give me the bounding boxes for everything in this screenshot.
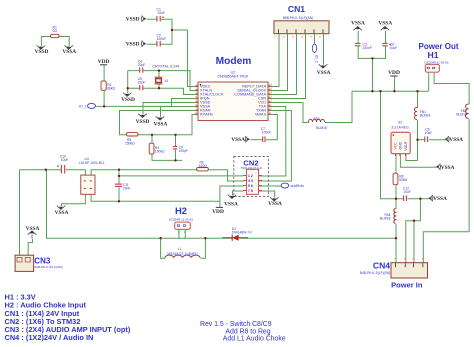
svg-text:BLM18: BLM18 xyxy=(316,126,327,130)
svg-text:VDD: VDD xyxy=(388,70,400,76)
wire R5 right to RXAFB pin xyxy=(139,115,199,135)
capacitor C5 xyxy=(138,77,146,90)
svg-text:Rev 1.5 - Switch C8/C9: Rev 1.5 - Switch C8/C9 xyxy=(200,321,272,328)
svg-text:100nF: 100nF xyxy=(157,37,167,41)
wire crystal top stub xyxy=(158,71,160,78)
capacitor C12 xyxy=(403,186,411,201)
wire C7 to VSSA arrow xyxy=(251,139,263,141)
wire R4 top stub xyxy=(151,135,153,144)
wire H1 pin2 to FB2 xyxy=(434,73,469,105)
svg-text:1: 1 xyxy=(274,36,278,38)
wire crystal row a xyxy=(128,71,199,91)
ground VSSD (C1) xyxy=(142,16,147,22)
wire C9 top stub xyxy=(175,135,177,147)
wire audio rail through H2 xyxy=(161,237,206,239)
svg-text:4: 4 xyxy=(421,258,425,260)
svg-text:68kΩ: 68kΩ xyxy=(107,87,115,91)
node IO_1 xyxy=(79,103,95,108)
svg-text:150kΩ: 150kΩ xyxy=(125,142,135,146)
wire crystal caps to VSSD xyxy=(127,71,129,94)
wire VDD pin to FB3 xyxy=(269,103,310,123)
ground VSSA (C4) xyxy=(381,27,390,31)
svg-text:10uF: 10uF xyxy=(403,190,411,194)
svg-text:VSSA: VSSA xyxy=(433,196,447,202)
svg-text:H1: H1 xyxy=(428,50,439,60)
svg-text:DZ254R-11-02-63: DZ254R-11-02-63 xyxy=(169,218,193,222)
svg-text:Add R8 to Reg: Add R8 to Reg xyxy=(225,328,270,335)
svg-text:VDD: VDD xyxy=(98,59,110,65)
wire VDD rail xyxy=(352,90,429,92)
svg-text:20nF: 20nF xyxy=(123,187,131,191)
capacitor C4 xyxy=(138,60,146,73)
wire FB2 to CN4 pin4 xyxy=(423,119,469,263)
svg-text:VSSA: VSSA xyxy=(231,137,245,143)
svg-text:10uF: 10uF xyxy=(425,131,433,135)
wire C4 to VSSA xyxy=(385,31,387,44)
power flag VDD (CN2) xyxy=(212,207,224,214)
wire C12 row xyxy=(396,198,429,200)
svg-text:RXAFB: RXAFB xyxy=(200,113,213,117)
svg-text:U3: U3 xyxy=(398,121,402,125)
svg-text:620Ω: 620Ω xyxy=(199,164,208,168)
wire CN3 pin1 up xyxy=(19,170,21,256)
svg-text:B4B-PH-K-S(LF)(SN): B4B-PH-K-S(LF)(SN) xyxy=(360,271,390,275)
pin numbers xyxy=(196,82,273,114)
ferrite bead FB4 xyxy=(380,209,395,224)
wire R1 right lead to VSSA xyxy=(60,37,70,46)
svg-text:VSSA: VSSA xyxy=(268,201,282,207)
svg-text:CN4 : (1X2)24V / Audio IN: CN4 : (1X2)24V / Audio IN xyxy=(5,333,94,342)
wire VSSA to CN2 row4 xyxy=(233,191,244,195)
svg-text:3: 3 xyxy=(411,258,415,260)
capacitor C3 xyxy=(355,42,372,50)
wire U4 top right to R6 xyxy=(91,170,197,176)
resistor R6 xyxy=(197,160,209,171)
connector CN2 xyxy=(234,156,269,196)
svg-text:536Ω: 536Ω xyxy=(399,178,408,182)
svg-text:X1: X1 xyxy=(164,79,168,83)
wire CN2 right row3 to audRxIn xyxy=(259,185,282,187)
ground VSSA (CN3) xyxy=(28,231,37,239)
wire left vert VDD rail to C12 row xyxy=(381,91,397,199)
wire U4 bottom right row xyxy=(91,195,220,202)
wire audio rail from CN3 branch xyxy=(47,170,161,239)
wire VSSA ground to VSSA pin xyxy=(161,107,199,117)
svg-text:VSSA: VSSA xyxy=(441,165,455,171)
resistor R4 xyxy=(149,143,165,154)
capacitor C7 xyxy=(261,127,271,142)
resistor R5 xyxy=(125,133,138,146)
svg-text:VCC: VCC xyxy=(393,142,397,150)
svg-text:VSSA: VSSA xyxy=(317,70,331,76)
svg-text:H2: H2 xyxy=(175,205,187,216)
svg-text:100nF: 100nF xyxy=(363,46,372,50)
svg-text:VDD: VDD xyxy=(212,209,224,215)
wire C10 to U4 xyxy=(66,170,86,176)
svg-text:BLM18: BLM18 xyxy=(420,114,431,118)
resistor R1 xyxy=(51,26,60,38)
svg-text:DZ254R-11-03-63: DZ254R-11-03-63 xyxy=(425,60,449,64)
svg-text:VOUT: VOUT xyxy=(404,141,408,150)
ferrite bead FB1 xyxy=(414,108,430,120)
svg-text:VBIAS: VBIAS xyxy=(255,113,267,117)
capacitor C4 (power) xyxy=(382,42,397,50)
svg-text:10uF: 10uF xyxy=(61,158,69,162)
capacitor C11 xyxy=(115,183,131,191)
wire R6 to CN2 row2 xyxy=(209,170,244,181)
svg-text:BLM18: BLM18 xyxy=(380,217,391,221)
svg-text:VSSD: VSSD xyxy=(126,42,140,48)
wire TXA to CN2 right row1 xyxy=(259,107,286,177)
svg-text:6: 6 xyxy=(318,36,322,38)
svg-text:Modem: Modem xyxy=(216,56,252,67)
inductor L1 xyxy=(165,247,200,258)
ferrite bead FB3 xyxy=(309,117,327,130)
note legend xyxy=(5,293,131,343)
svg-text:S2B-PH-K-S(LF)(SN): S2B-PH-K-S(LF)(SN) xyxy=(34,265,63,269)
wire FB3 to VDD rail xyxy=(325,91,352,122)
wire C11 top stub xyxy=(118,170,120,184)
ground VSSA (U2) xyxy=(156,116,165,120)
wire VSSD to C2 xyxy=(147,43,158,45)
svg-text:1N4148W-7-F: 1N4148W-7-F xyxy=(232,231,253,235)
svg-text:2: 2 xyxy=(403,258,407,260)
svg-text:VSSD: VSSD xyxy=(35,49,49,55)
wire FB1 stubs xyxy=(417,91,419,140)
wire L1 loop xyxy=(161,238,206,258)
wire R4 C9 bottom row xyxy=(152,150,182,161)
power flag VDD (R2) xyxy=(98,59,110,65)
svg-text:22pF: 22pF xyxy=(138,63,146,67)
svg-text:100pF: 100pF xyxy=(179,149,188,153)
wire VDD to R2 xyxy=(103,65,105,81)
pin names left xyxy=(200,85,224,117)
wire R8 to C12 row xyxy=(395,185,397,199)
ground VSSD (R1 left) xyxy=(37,45,46,49)
wire VSSD to C1 xyxy=(147,18,158,20)
svg-text:VSSA: VSSA xyxy=(449,137,463,143)
wire U3 VCC to R8 xyxy=(395,154,397,173)
wire C1 to junction xyxy=(161,19,172,30)
wire COMMAND_DATA to CN1 pin3 xyxy=(269,34,297,94)
ground VSSA (CN2 right) xyxy=(270,197,279,201)
svg-text:LM-NP-1001-B1L: LM-NP-1001-B1L xyxy=(79,161,105,165)
resistor R2 xyxy=(101,81,116,91)
wire R2 to junction xyxy=(103,91,105,107)
wire C2 to junction xyxy=(161,30,172,44)
svg-text:VSSA: VSSA xyxy=(351,20,365,26)
svg-text:100kΩ: 100kΩ xyxy=(155,150,165,154)
connector H2 xyxy=(169,205,193,234)
op-amp U2 xyxy=(196,71,273,121)
wire junction to VDEC pin xyxy=(172,30,199,87)
svg-text:VSSA: VSSA xyxy=(26,226,40,232)
svg-text:L1: L1 xyxy=(178,247,182,251)
wire node IO_1 to IRQN pin xyxy=(96,99,198,107)
wire C3 C4 bottom row xyxy=(358,46,385,91)
svg-text:7 8: 7 8 xyxy=(248,189,253,193)
svg-text:audRxIn: audRxIn xyxy=(291,184,304,188)
ground VSSA (U3 GND) xyxy=(436,164,441,170)
svg-text:22pF: 22pF xyxy=(138,81,146,85)
wire R5 left to RXAN pin xyxy=(120,111,199,135)
svg-text:GND: GND xyxy=(399,141,403,149)
connector CN1 xyxy=(274,4,330,38)
svg-text:3.3 1A REG: 3.3 1A REG xyxy=(391,126,409,130)
svg-text:CN4: CN4 xyxy=(373,261,390,271)
wire R1 left lead to VSSD xyxy=(41,37,51,46)
svg-text:BLM18: BLM18 xyxy=(456,113,467,117)
svg-text:5: 5 xyxy=(309,36,313,38)
wire CN1 pin6 to VSSA xyxy=(323,34,325,65)
svg-text:CN1: CN1 xyxy=(288,4,305,14)
svg-text:B6B-PH-K-S(LF)(SN): B6B-PH-K-S(LF)(SN) xyxy=(283,16,313,20)
left pin stubs xyxy=(196,86,198,114)
connector CN3 xyxy=(15,255,63,271)
resistor R8 xyxy=(393,173,408,185)
node audRxIn xyxy=(281,183,304,188)
wire C6 to VSSA arrow xyxy=(429,139,445,141)
wire crystal row b xyxy=(128,88,199,94)
svg-text:FB3: FB3 xyxy=(313,117,319,121)
connector CN4 xyxy=(360,258,428,289)
ground VSSA (CN2 left) xyxy=(228,195,237,199)
svg-text:IO_1: IO_1 xyxy=(79,105,87,109)
wire VSSD ground to VSSD pin xyxy=(143,103,199,115)
capacitor C9 xyxy=(173,146,188,154)
svg-text:100nF: 100nF xyxy=(262,131,271,135)
ground VSSD (crystal) xyxy=(123,93,132,97)
svg-text:0Ω: 0Ω xyxy=(52,29,57,33)
svg-text:1: 1 xyxy=(393,258,397,260)
svg-text:VSSA: VSSA xyxy=(378,20,392,26)
wire C11 bottom stub xyxy=(118,187,120,201)
svg-text:Add L1 Audio Choke: Add L1 Audio Choke xyxy=(223,336,286,343)
wire CN1 pin5 to node xyxy=(314,34,316,44)
crystal X1 xyxy=(155,77,169,84)
wire C3 to VSSA xyxy=(357,31,359,44)
wire REPLY_DATA to CN1 pin1 xyxy=(269,34,280,86)
wire U4 bottom left to VSSA xyxy=(62,195,86,206)
diode D1 xyxy=(223,227,253,241)
capacitor C1 xyxy=(157,7,166,21)
wire H1 pin1 down to rail xyxy=(428,73,430,92)
node junction dots xyxy=(171,29,173,31)
wire FB4 stubs xyxy=(395,199,397,239)
wire U3 GND to VSSA arrow xyxy=(400,154,436,167)
note revision xyxy=(200,321,286,343)
transformer U4 xyxy=(79,157,105,194)
svg-text:IO_2: IO_2 xyxy=(314,55,318,63)
ground VSSA (C3) xyxy=(353,27,362,31)
capacitor C2 xyxy=(157,33,167,46)
node IO_2 (CN1 pin5) xyxy=(312,44,318,63)
connector H1 xyxy=(425,50,449,72)
svg-text:16: 16 xyxy=(269,82,272,86)
svg-text:10uF: 10uF xyxy=(158,11,166,15)
wire VDD stub xyxy=(394,77,396,92)
pin names right xyxy=(234,85,266,117)
wire crystal bottom stub xyxy=(158,84,160,88)
ground VSSA (C12) xyxy=(428,195,433,201)
wire CN4 pin1 stub xyxy=(395,238,397,263)
wire H2 pin stubs xyxy=(179,230,185,238)
svg-text:1 2: 1 2 xyxy=(248,174,253,178)
svg-text:Power In: Power In xyxy=(391,280,423,289)
svg-text:MSS1812T-104MED: MSS1812T-104MED xyxy=(167,252,198,256)
wire D1 to power junction xyxy=(239,237,396,239)
right pin stubs xyxy=(268,86,270,114)
svg-text:Power Out: Power Out xyxy=(418,42,458,51)
svg-text:VSSA: VSSA xyxy=(62,49,76,55)
wire SERIAL_CLOCK to CN1 pin2 xyxy=(269,34,288,90)
svg-text:VSSD: VSSD xyxy=(136,119,150,125)
wire CSN to CN1 pin4 xyxy=(269,34,306,98)
ground VSSD (C2) xyxy=(142,41,147,47)
svg-text:CMX865AE4 TR1K: CMX865AE4 TR1K xyxy=(218,74,249,78)
ground VSSD (U2) xyxy=(138,114,147,118)
svg-text:CRYSTAL 6.144: CRYSTAL 6.144 xyxy=(152,65,179,69)
wire U3 VOUT to 3v3 node xyxy=(406,140,418,161)
ferrite bead FB2 xyxy=(456,104,468,118)
regulator U3 xyxy=(391,121,410,156)
ground VSSA (CN1 pin6) xyxy=(319,64,328,68)
ground VSSA (C6) xyxy=(444,136,449,142)
ground VSSA (R1 right) xyxy=(64,45,73,49)
wire CN4 pins 2 3 to gnd row xyxy=(406,199,421,264)
svg-text:VSSD: VSSD xyxy=(121,97,135,103)
ground VSSA (C7) xyxy=(245,136,250,142)
svg-text:10uF: 10uF xyxy=(390,46,398,50)
capacitor C6 xyxy=(425,127,433,142)
wire 3v3 node to C6 xyxy=(418,139,425,141)
capacitor C10 xyxy=(57,154,68,173)
ground VSSA (U4) xyxy=(57,206,66,210)
wire VBIAS to C7 xyxy=(266,115,277,140)
svg-text:VSSA: VSSA xyxy=(55,210,69,216)
wire CN2 right row4 to VSSA xyxy=(259,191,275,198)
wire C11 row to CN2 row1 xyxy=(119,175,244,177)
svg-text:3 4: 3 4 xyxy=(248,179,253,183)
svg-text:3: 3 xyxy=(291,36,295,38)
power flag VDD (rail) xyxy=(388,70,400,76)
svg-text:VSSA: VSSA xyxy=(224,201,238,207)
svg-text:5 6: 5 6 xyxy=(248,184,253,188)
wire main left row to C10 xyxy=(20,169,62,171)
svg-text:VSSD: VSSD xyxy=(126,17,140,23)
wire audio rail to D1 xyxy=(205,237,232,239)
svg-text:2: 2 xyxy=(282,36,286,38)
wire TXAN to CN2 right row2 xyxy=(259,111,291,182)
svg-text:VSSA: VSSA xyxy=(154,121,168,127)
svg-text:4: 4 xyxy=(300,36,304,38)
wire CN3 pin2 to VSSA xyxy=(28,239,32,256)
wire VDD to CN2 row3 xyxy=(220,186,244,208)
